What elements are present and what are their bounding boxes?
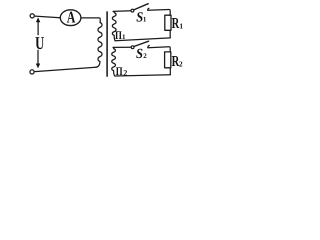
switch S2 contact [148, 45, 149, 47]
ammeter U1 body [60, 10, 81, 26]
transformer primary winding [98, 23, 102, 62]
wire S1 to R1 [148, 10, 170, 16]
wire R1 back to P1 [115, 38, 170, 41]
wire P1 top to switch [113, 10, 131, 13]
resistor R1 body [165, 15, 171, 30]
terminal bottom-left [30, 70, 34, 74]
svg-text:1: 1 [122, 33, 126, 41]
switch S2 blade [134, 41, 149, 46]
switch S1 blade [134, 4, 149, 10]
resistor R2 bottom lead [169, 68, 171, 75]
wire ammeter to primary [81, 18, 100, 23]
transformer core [106, 12, 108, 76]
wire bottom-left [35, 67, 96, 71]
resistor R1 bottom lead [169, 30, 171, 38]
secondary winding P2 [112, 47, 116, 76]
svg-text:U: U [35, 33, 44, 53]
svg-text:2: 2 [179, 59, 183, 68]
svg-text:П: П [116, 65, 123, 78]
voltage arrow up [37, 23, 39, 35]
secondary winding P1 [112, 11, 116, 40]
voltage arrow down [37, 50, 39, 63]
svg-text:1: 1 [179, 22, 183, 31]
wire P2 top to switch [113, 46, 131, 48]
terminal top-left [30, 14, 34, 18]
arrow head up [36, 17, 40, 22]
primary bottom elbow [96, 62, 100, 68]
arrow head down [36, 64, 40, 69]
svg-text:2: 2 [123, 68, 127, 77]
svg-text:1: 1 [143, 15, 147, 23]
switch S2 pivot [131, 46, 134, 49]
switch S1 contact [148, 8, 149, 10]
wire R2 back to P2 [115, 75, 170, 76]
switch S1 pivot [131, 9, 134, 12]
wire top-left [35, 16, 60, 18]
svg-text:A: A [67, 8, 76, 27]
wire S2 to R2 [148, 47, 170, 52]
svg-text:2: 2 [143, 52, 147, 60]
svg-text:S: S [136, 47, 143, 62]
svg-text:П: П [115, 29, 122, 42]
resistor R2 body [165, 52, 171, 68]
